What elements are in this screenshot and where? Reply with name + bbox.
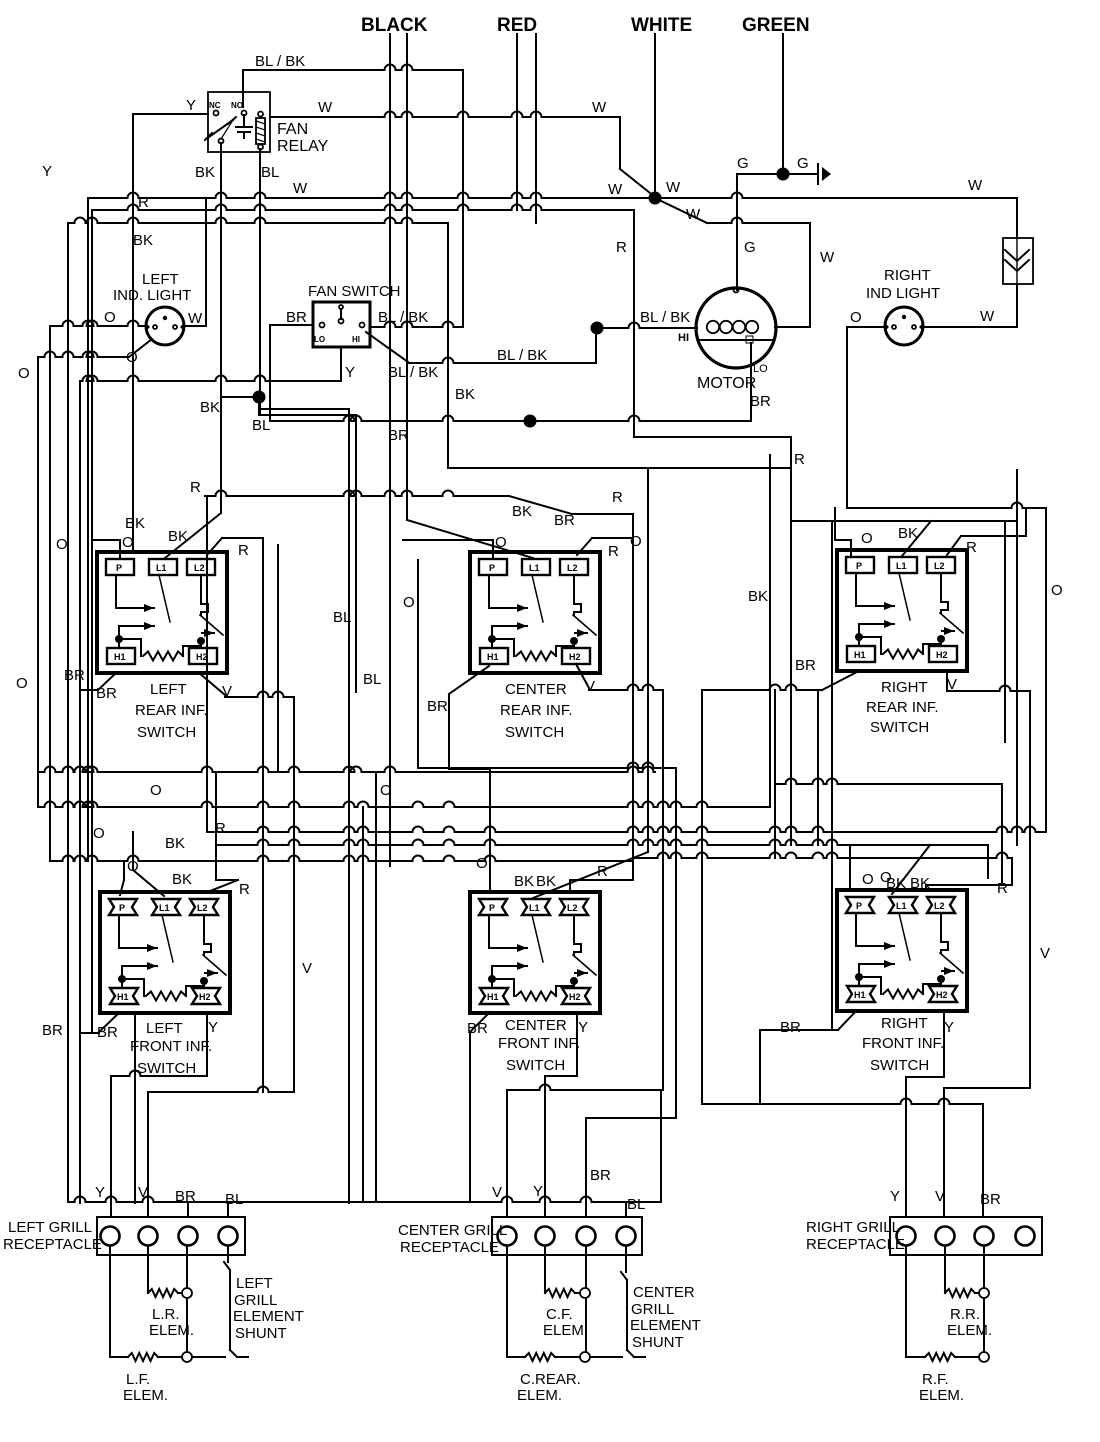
svg-text:P: P bbox=[489, 903, 495, 913]
svg-text:Y: Y bbox=[208, 1019, 218, 1036]
svg-text:BK: BK bbox=[195, 164, 215, 181]
svg-text:LEFT: LEFT bbox=[150, 681, 187, 698]
svg-text:O: O bbox=[104, 309, 116, 326]
svg-text:O: O bbox=[861, 530, 873, 547]
svg-text:BL: BL bbox=[333, 609, 351, 626]
svg-text:W: W bbox=[293, 180, 308, 197]
svg-text:P: P bbox=[856, 901, 862, 911]
svg-text:BL: BL bbox=[627, 1196, 645, 1213]
svg-text:BL / BK: BL / BK bbox=[388, 364, 438, 381]
svg-text:SHUNT: SHUNT bbox=[235, 1325, 287, 1342]
svg-text:CENTER: CENTER bbox=[633, 1284, 695, 1301]
svg-text:Y: Y bbox=[890, 1188, 900, 1205]
svg-text:O: O bbox=[150, 782, 162, 799]
svg-text:H1: H1 bbox=[854, 650, 866, 660]
svg-text:Y: Y bbox=[345, 364, 355, 381]
svg-text:R.F.: R.F. bbox=[922, 1371, 949, 1388]
svg-text:W: W bbox=[980, 308, 995, 325]
svg-text:BR: BR bbox=[97, 1024, 118, 1041]
svg-text:BK: BK bbox=[165, 835, 185, 852]
svg-text:Y: Y bbox=[95, 1184, 105, 1201]
svg-text:O: O bbox=[122, 534, 134, 551]
svg-text:BK: BK bbox=[455, 386, 475, 403]
svg-text:O: O bbox=[93, 825, 105, 842]
svg-text:W: W bbox=[820, 249, 835, 266]
svg-text:RECEPTACLE: RECEPTACLE bbox=[3, 1236, 102, 1253]
svg-text:R: R bbox=[794, 451, 805, 468]
svg-text:L2: L2 bbox=[567, 903, 578, 913]
svg-text:REAR INF.: REAR INF. bbox=[500, 702, 573, 719]
svg-text:W: W bbox=[188, 310, 203, 327]
svg-text:GRILL: GRILL bbox=[234, 1292, 277, 1309]
svg-text:P: P bbox=[119, 903, 125, 913]
svg-text:R: R bbox=[239, 881, 250, 898]
svg-text:BK: BK bbox=[125, 515, 145, 532]
svg-text:RIGHT: RIGHT bbox=[881, 1015, 928, 1032]
svg-text:BR: BR bbox=[590, 1167, 611, 1184]
svg-text:O: O bbox=[850, 309, 862, 326]
svg-text:Y: Y bbox=[186, 97, 196, 114]
svg-text:V: V bbox=[492, 1184, 502, 1201]
svg-text:BR: BR bbox=[388, 427, 409, 444]
svg-text:RIGHT: RIGHT bbox=[881, 679, 928, 696]
svg-text:BK: BK bbox=[536, 873, 556, 890]
svg-text:H1: H1 bbox=[487, 652, 499, 662]
svg-text:BK: BK bbox=[886, 875, 906, 892]
svg-text:BK: BK bbox=[910, 875, 930, 892]
svg-text:O: O bbox=[16, 675, 28, 692]
svg-text:RED: RED bbox=[497, 15, 537, 36]
svg-text:LO: LO bbox=[314, 335, 325, 344]
svg-text:RECEPTACLE: RECEPTACLE bbox=[806, 1236, 905, 1253]
svg-text:H2: H2 bbox=[936, 650, 948, 660]
svg-text:O: O bbox=[630, 533, 642, 550]
svg-text:V: V bbox=[1040, 945, 1050, 962]
svg-text:REAR INF.: REAR INF. bbox=[135, 702, 208, 719]
svg-text:ELEM.: ELEM. bbox=[919, 1387, 964, 1404]
svg-text:P: P bbox=[489, 563, 495, 573]
svg-text:BL: BL bbox=[363, 671, 381, 688]
svg-text:G: G bbox=[737, 155, 749, 172]
svg-text:CENTER: CENTER bbox=[505, 1017, 567, 1034]
svg-text:H1: H1 bbox=[114, 652, 126, 662]
svg-text:O: O bbox=[18, 365, 30, 382]
svg-text:Y: Y bbox=[578, 1019, 588, 1036]
svg-text:LEFT: LEFT bbox=[236, 1275, 273, 1292]
svg-text:R: R bbox=[616, 239, 627, 256]
svg-text:FRONT INF.: FRONT INF. bbox=[498, 1035, 580, 1052]
svg-text:H2: H2 bbox=[199, 992, 211, 1002]
svg-text:RECEPTACLE: RECEPTACLE bbox=[400, 1239, 499, 1256]
svg-text:BR: BR bbox=[286, 309, 307, 326]
svg-text:BK: BK bbox=[172, 871, 192, 888]
svg-text:FAN: FAN bbox=[277, 121, 308, 138]
svg-text:BLACK: BLACK bbox=[361, 15, 428, 36]
svg-text:ELEM.: ELEM. bbox=[123, 1387, 168, 1404]
svg-text:G: G bbox=[797, 155, 809, 172]
svg-text:BR: BR bbox=[795, 657, 816, 674]
svg-text:SWITCH: SWITCH bbox=[870, 1057, 929, 1074]
svg-text:H2: H2 bbox=[569, 652, 581, 662]
svg-text:LEFT: LEFT bbox=[142, 271, 179, 288]
svg-text:H2: H2 bbox=[569, 992, 581, 1002]
svg-text:V: V bbox=[585, 678, 595, 695]
svg-text:C.REAR.: C.REAR. bbox=[520, 1371, 581, 1388]
svg-text:P: P bbox=[116, 563, 122, 573]
svg-text:IND LIGHT: IND LIGHT bbox=[866, 285, 940, 302]
svg-text:BK: BK bbox=[748, 588, 768, 605]
svg-text:O: O bbox=[380, 782, 392, 799]
svg-text:SWITCH: SWITCH bbox=[505, 724, 564, 741]
svg-text:IND. LIGHT: IND. LIGHT bbox=[113, 287, 191, 304]
svg-text:SWITCH: SWITCH bbox=[137, 1060, 196, 1077]
svg-text:L2: L2 bbox=[567, 563, 578, 573]
svg-text:O: O bbox=[476, 855, 488, 872]
svg-text:BL / BK: BL / BK bbox=[640, 309, 690, 326]
svg-text:ELEM.: ELEM. bbox=[947, 1322, 992, 1339]
svg-text:G: G bbox=[744, 239, 756, 256]
svg-text:SHUNT: SHUNT bbox=[632, 1334, 684, 1351]
svg-text:BK: BK bbox=[200, 399, 220, 416]
svg-text:BR: BR bbox=[42, 1022, 63, 1039]
svg-text:R: R bbox=[997, 880, 1008, 897]
svg-text:CENTER GRILL: CENTER GRILL bbox=[398, 1222, 507, 1239]
svg-text:W: W bbox=[666, 179, 681, 196]
svg-text:BR: BR bbox=[427, 698, 448, 715]
svg-text:C.F.: C.F. bbox=[546, 1306, 573, 1323]
svg-text:H2: H2 bbox=[936, 990, 948, 1000]
svg-text:LO: LO bbox=[753, 363, 768, 375]
svg-text:O: O bbox=[495, 534, 507, 551]
svg-text:H1: H1 bbox=[487, 992, 499, 1002]
svg-text:O: O bbox=[403, 594, 415, 611]
svg-text:L2: L2 bbox=[934, 901, 945, 911]
svg-text:W: W bbox=[608, 181, 623, 198]
svg-text:W: W bbox=[968, 177, 983, 194]
svg-text:FAN SWITCH: FAN SWITCH bbox=[308, 283, 401, 300]
svg-text:L1: L1 bbox=[156, 563, 167, 573]
svg-text:BR: BR bbox=[554, 512, 575, 529]
svg-text:L1: L1 bbox=[896, 901, 907, 911]
svg-text:BL / BK: BL / BK bbox=[255, 53, 305, 70]
svg-text:W: W bbox=[318, 99, 333, 116]
svg-text:HI: HI bbox=[678, 332, 689, 344]
svg-text:LEFT: LEFT bbox=[146, 1020, 183, 1037]
svg-text:HI: HI bbox=[352, 335, 360, 344]
svg-text:H2: H2 bbox=[196, 652, 208, 662]
svg-text:ELEMENT: ELEMENT bbox=[233, 1308, 304, 1325]
svg-text:BL: BL bbox=[252, 417, 270, 434]
svg-text:NO: NO bbox=[231, 101, 243, 110]
svg-text:R: R bbox=[612, 489, 623, 506]
svg-text:RELAY: RELAY bbox=[277, 138, 329, 155]
svg-text:L1: L1 bbox=[529, 903, 540, 913]
svg-text:NC: NC bbox=[209, 101, 221, 110]
svg-text:Y: Y bbox=[42, 163, 52, 180]
svg-text:L2: L2 bbox=[934, 561, 945, 571]
svg-text:BL: BL bbox=[261, 164, 279, 181]
svg-text:MOTOR: MOTOR bbox=[697, 375, 756, 392]
svg-text:RIGHT: RIGHT bbox=[884, 267, 931, 284]
svg-text:BK: BK bbox=[514, 873, 534, 890]
svg-text:BK: BK bbox=[512, 503, 532, 520]
svg-text:ELEM.: ELEM. bbox=[517, 1387, 562, 1404]
svg-text:L2: L2 bbox=[194, 563, 205, 573]
svg-text:ELEMENT: ELEMENT bbox=[630, 1317, 701, 1334]
svg-text:L2: L2 bbox=[197, 903, 208, 913]
svg-text:RIGHT GRILL: RIGHT GRILL bbox=[806, 1219, 900, 1236]
svg-text:BR: BR bbox=[64, 667, 85, 684]
svg-text:R: R bbox=[608, 543, 619, 560]
svg-text:GRILL: GRILL bbox=[631, 1301, 674, 1318]
svg-text:WHITE: WHITE bbox=[631, 15, 692, 36]
svg-text:Y: Y bbox=[944, 1019, 954, 1036]
svg-text:SWITCH: SWITCH bbox=[870, 719, 929, 736]
svg-text:SWITCH: SWITCH bbox=[506, 1057, 565, 1074]
svg-text:FRONT INF.: FRONT INF. bbox=[130, 1038, 212, 1055]
svg-text:BR: BR bbox=[980, 1191, 1001, 1208]
svg-text:ELEM.: ELEM. bbox=[543, 1322, 588, 1339]
svg-text:L1: L1 bbox=[159, 903, 170, 913]
svg-text:L.F.: L.F. bbox=[126, 1371, 150, 1388]
svg-text:O: O bbox=[862, 871, 874, 888]
svg-text:CENTER: CENTER bbox=[505, 681, 567, 698]
svg-text:BR: BR bbox=[750, 393, 771, 410]
svg-text:R: R bbox=[966, 539, 977, 556]
svg-text:GREEN: GREEN bbox=[742, 15, 810, 36]
svg-text:H1: H1 bbox=[117, 992, 129, 1002]
svg-text:FRONT INF.: FRONT INF. bbox=[862, 1035, 944, 1052]
svg-text:BK: BK bbox=[133, 232, 153, 249]
svg-text:O: O bbox=[1051, 582, 1063, 599]
svg-text:L.R.: L.R. bbox=[152, 1306, 180, 1323]
svg-text:V: V bbox=[302, 960, 312, 977]
svg-text:W: W bbox=[686, 206, 701, 223]
svg-text:R: R bbox=[597, 863, 608, 880]
svg-text:R.R.: R.R. bbox=[950, 1306, 980, 1323]
svg-text:BL / BK: BL / BK bbox=[497, 347, 547, 364]
svg-text:P: P bbox=[856, 561, 862, 571]
svg-text:R: R bbox=[190, 479, 201, 496]
svg-text:BR: BR bbox=[780, 1019, 801, 1036]
svg-text:SWITCH: SWITCH bbox=[137, 724, 196, 741]
svg-text:L1: L1 bbox=[896, 561, 907, 571]
svg-text:R: R bbox=[238, 542, 249, 559]
svg-text:LEFT GRILL: LEFT GRILL bbox=[8, 1219, 92, 1236]
svg-text:H1: H1 bbox=[854, 990, 866, 1000]
svg-text:O: O bbox=[56, 536, 68, 553]
svg-text:REAR INF.: REAR INF. bbox=[866, 699, 939, 716]
svg-text:W: W bbox=[592, 99, 607, 116]
svg-text:R: R bbox=[138, 194, 149, 211]
svg-text:V: V bbox=[935, 1188, 945, 1205]
svg-text:BK: BK bbox=[168, 528, 188, 545]
svg-text:L1: L1 bbox=[529, 563, 540, 573]
